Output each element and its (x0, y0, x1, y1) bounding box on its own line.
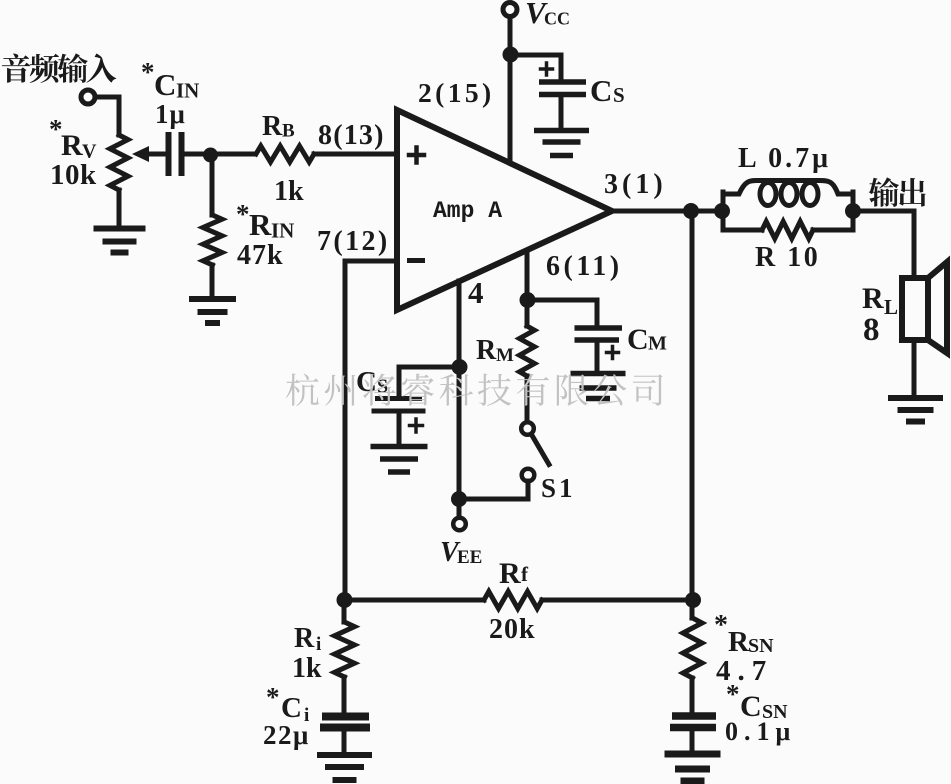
svg-text:R: R (61, 129, 83, 162)
svg-text:C: C (627, 323, 649, 356)
wire to speaker (852, 211, 914, 278)
svg-text:R: R (476, 335, 497, 366)
wire input terminal to R_V top (95, 97, 119, 135)
speaker R_L (902, 262, 947, 353)
wire op-amp pin 4 down (457, 281, 462, 499)
label C_S (356, 366, 388, 398)
svg-text:R: R (499, 557, 521, 590)
label *R_SN (714, 610, 774, 658)
node junction output/RSN (683, 203, 699, 219)
wire junction down to R_IN (210, 154, 215, 215)
svg-text:*: * (141, 57, 155, 87)
wire to C_S (bypass2) (399, 367, 460, 396)
svg-text:C: C (154, 67, 176, 102)
svg-text:3(1): 3(1) (604, 169, 667, 200)
svg-text:SN: SN (748, 635, 774, 657)
wire op-amp pin 7 to feedback rail (345, 261, 397, 600)
wire R_IN to ground (210, 265, 215, 297)
+ input marker (409, 148, 424, 163)
svg-text:*: * (726, 679, 740, 709)
svg-text:1μ: 1μ (155, 99, 186, 129)
wire C_M branch (527, 300, 597, 325)
wire output node down to rail (690, 211, 695, 600)
wire R_V bottom to ground (117, 190, 122, 226)
label R_M (476, 335, 514, 366)
node junction at C_IN/R_IN (203, 148, 218, 163)
potentiometer R_V (110, 135, 168, 190)
label *C_IN (141, 57, 199, 103)
svg-text:20k: 20k (489, 614, 536, 645)
svg-text:R: R (249, 207, 272, 242)
ground (C_i) (317, 755, 372, 780)
wire junction to C_S (510, 55, 561, 80)
label *R_V (49, 114, 97, 163)
capacitor C_S (neg supply) (372, 399, 426, 412)
wire C_IN to R_B (181, 152, 255, 157)
svg-text:6(11): 6(11) (546, 251, 623, 282)
label V_EE (440, 537, 482, 568)
svg-text:*: * (236, 199, 250, 229)
ground (speaker) (888, 398, 943, 422)
svg-text:7(12): 7(12) (317, 226, 390, 257)
svg-text:22μ: 22μ (263, 720, 310, 750)
watermark 杭州将睿科技有限公司 (286, 373, 663, 405)
switch S1 (521, 422, 549, 481)
capacitor C_i (320, 717, 370, 728)
svg-text:10k: 10k (50, 159, 97, 191)
ground (C_S supply) (534, 131, 589, 156)
svg-text:2(15): 2(15) (418, 77, 495, 108)
svg-text:Amp A: Amp A (433, 198, 502, 224)
resistor R_f (484, 592, 542, 609)
node junction Rf/RSN (685, 592, 701, 608)
label C_S (590, 73, 625, 108)
ground (C_SN) (665, 754, 721, 781)
ground (R_IN) (189, 299, 236, 323)
svg-text:R: R (728, 626, 750, 658)
input terminal (81, 90, 95, 104)
wire R_i to C_i (342, 677, 347, 713)
resistor R_SN (690, 600, 695, 618)
svg-text:47k: 47k (237, 240, 284, 271)
label *C_i (266, 682, 309, 726)
wire rail right (542, 598, 692, 603)
svg-text:IN: IN (271, 219, 294, 243)
svg-text:1k: 1k (292, 653, 322, 684)
capacitor C_S (supply) (539, 82, 586, 95)
svg-text:L 0.7μ: L 0.7μ (738, 143, 831, 174)
svg-text:R: R (862, 282, 884, 315)
wire C_M to ground (595, 342, 600, 373)
svg-text:R: R (262, 111, 283, 142)
wire speaker to ground (912, 340, 917, 395)
svg-text:f: f (521, 562, 529, 586)
svg-text:i: i (316, 634, 321, 655)
wire rail left (345, 598, 484, 603)
polarity + (607, 347, 619, 359)
node L left (714, 203, 730, 219)
label C_M (627, 323, 667, 356)
inductor L (723, 181, 853, 231)
VEE terminal (457, 499, 462, 518)
label 音频输入 (audio input) (2, 53, 116, 82)
label R_i (294, 623, 321, 655)
wire pin 6 down (525, 251, 530, 326)
Vcc terminal (503, 3, 517, 17)
wire Vcc to op-amp pin 2 (508, 17, 513, 164)
svg-text:8(13): 8(13) (318, 120, 385, 151)
label *C_SN (726, 679, 788, 723)
svg-text:L: L (884, 295, 898, 319)
wire to ground (397, 413, 402, 444)
wire C_S to ground (559, 97, 564, 129)
svg-text:C: C (590, 73, 612, 108)
svg-text:EE: EE (457, 547, 482, 568)
svg-text:M: M (648, 333, 667, 355)
svg-text:M: M (496, 345, 514, 366)
svg-text:4: 4 (468, 275, 484, 310)
resistor R (10) (723, 222, 853, 239)
wire C_SN to ground (690, 732, 695, 750)
wire R_SN to C_SN (690, 678, 695, 712)
svg-text:1k: 1k (274, 176, 304, 207)
capacitor C_SN (670, 716, 716, 728)
resistor R_i (342, 600, 347, 622)
svg-text:*: * (714, 610, 728, 641)
resistor R_IN (203, 215, 222, 265)
wire R_M to switch (525, 376, 530, 423)
node junction pin6 (520, 292, 536, 308)
label R_L (862, 282, 898, 319)
wire R_B to op-amp + input (314, 152, 397, 157)
op-amp Amp A (397, 110, 612, 310)
ground (C_M) (571, 374, 626, 399)
label R_B (262, 111, 295, 142)
svg-text:4.7: 4.7 (716, 655, 773, 687)
svg-text:CC: CC (544, 9, 570, 29)
ground (C_S neg) (371, 447, 428, 473)
node junction pin4/VEE (451, 491, 467, 507)
svg-text:R 10: R 10 (755, 242, 820, 273)
wire S1 to VEE rail (459, 481, 528, 499)
node L right (845, 203, 861, 219)
svg-text:S1: S1 (541, 473, 576, 503)
node junction pin4/CS2 (452, 359, 468, 375)
svg-text:B: B (282, 121, 295, 142)
capacitor C_M (575, 328, 623, 340)
svg-text:S: S (613, 83, 625, 107)
label 输出 (output) (869, 177, 926, 206)
node junction Vcc/Cs (503, 47, 519, 63)
label R_f (499, 557, 529, 590)
wire op-amp output (612, 209, 722, 214)
node junction Ri/Rf (337, 592, 353, 608)
polarity + (541, 63, 553, 75)
svg-text:8: 8 (863, 312, 880, 348)
resistor R_B (256, 146, 314, 162)
label V_CC (525, 0, 570, 30)
wire C_i to ground (342, 731, 347, 752)
svg-text:R: R (294, 623, 315, 654)
svg-text:*: * (266, 682, 280, 712)
- input marker (410, 258, 423, 263)
svg-text:0.1μ: 0.1μ (725, 717, 796, 746)
ground (R_V) (94, 229, 146, 253)
resistor R_M (520, 326, 535, 376)
polarity + (410, 419, 423, 432)
capacitor C_IN (169, 132, 182, 176)
label *R_IN (236, 199, 294, 243)
